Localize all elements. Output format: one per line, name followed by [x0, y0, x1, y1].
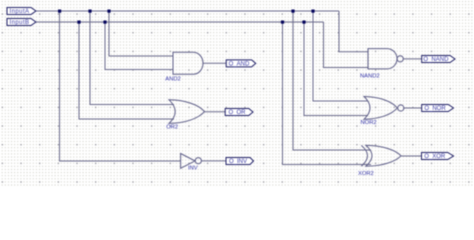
wire OR2 output: [205, 111, 226, 113]
junction B-AND: [103, 21, 106, 24]
junction B-OR: [77, 21, 80, 24]
svg-text:O_INV: O_INV: [229, 159, 247, 165]
svg-text:NAND2: NAND2: [360, 73, 380, 79]
svg-text:O_OR: O_OR: [228, 110, 246, 116]
port O_NAND: [422, 56, 455, 64]
svg-text:XOR2: XOR2: [358, 171, 374, 177]
port O_AND: [226, 60, 256, 68]
svg-text:NOR2: NOR2: [361, 120, 377, 126]
wire A to XOR2 upper input: [293, 11, 371, 150]
gate OR2 body: [169, 100, 205, 124]
wire A to INV input: [60, 11, 182, 161]
wire XOR2 output: [401, 155, 422, 157]
gate XOR2 extra input arc: [361, 145, 367, 166]
gate NOR2 body: [364, 97, 397, 120]
gate NAND2 body: [368, 49, 397, 69]
wire B to AND2 lower input: [105, 22, 174, 70]
wire A to NOR2 upper input: [313, 11, 368, 101]
wire B to XOR2 lower input: [283, 22, 372, 165]
port InputA: [7, 8, 36, 16]
svg-text:InputA: InputA: [10, 9, 30, 15]
wire A end to NAND2 upper input: [339, 11, 369, 52]
grid dots: [0, 0, 474, 187]
svg-text:O_NAND: O_NAND: [423, 57, 449, 63]
wire B to NOR2 lower input: [304, 22, 368, 116]
svg-text:OR2: OR2: [166, 124, 178, 130]
svg-text:O_NOR: O_NOR: [424, 106, 446, 112]
wire NOR2 output: [403, 107, 422, 109]
wire B end to NAND2 lower input: [324, 22, 369, 68]
junction B-XOR: [281, 21, 284, 24]
wire INV output: [201, 160, 226, 162]
junction A-NOR: [311, 10, 314, 13]
svg-text:INV: INV: [188, 166, 198, 172]
gate NOR2 bubble: [398, 105, 404, 111]
wire B to OR2 lower input: [79, 22, 174, 119]
gate INV bubble: [195, 158, 201, 164]
port O_NOR: [422, 105, 454, 113]
wire bus InputA: [36, 10, 339, 12]
svg-text:AND2: AND2: [165, 76, 180, 82]
junction A-AND: [107, 10, 110, 13]
junction A-OR: [88, 10, 91, 13]
wire NAND2 output: [403, 58, 422, 60]
port O_INV: [226, 158, 254, 166]
port O_XOR: [422, 153, 454, 161]
wire AND2 output: [203, 62, 226, 64]
junction B-NOR: [302, 21, 305, 24]
gate INV body: [181, 154, 195, 169]
port O_OR: [225, 109, 253, 117]
wire A to OR2 upper input: [90, 11, 174, 105]
svg-text:InputB: InputB: [10, 20, 30, 26]
junction A-INV: [58, 10, 61, 13]
gate NAND2 bubble: [397, 56, 403, 62]
junction A-XOR: [291, 10, 294, 13]
gate XOR2 body: [366, 145, 401, 166]
port InputB: [7, 19, 36, 27]
svg-text:O_AND: O_AND: [229, 62, 250, 68]
wire A to AND2 upper input: [109, 11, 174, 56]
wire bus InputB: [36, 21, 324, 23]
svg-text:O_XOR: O_XOR: [424, 154, 446, 160]
gate AND2 body: [173, 52, 203, 74]
